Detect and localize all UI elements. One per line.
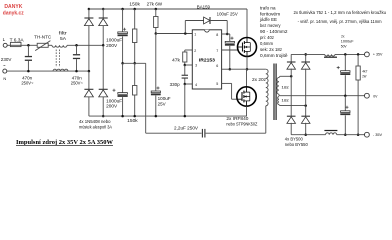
wire +35V rail	[291, 53, 325, 55]
svg-text:danyk.cz: danyk.cz	[3, 11, 24, 17]
svg-text:- 35V: - 35V	[373, 132, 383, 137]
svg-text:0,6mm: 0,6mm	[260, 41, 273, 46]
svg-text:18z: 18z	[281, 86, 289, 90]
svg-text:2x tlumivka 75z 1 - 1,2 mm na: 2x tlumivka 75z 1 - 1,2 mm na feritovém …	[294, 10, 387, 15]
svg-text:100uF 25V: 100uF 25V	[217, 12, 238, 17]
diode D7 out top-right	[305, 54, 307, 62]
node L-cap junction	[27, 44, 30, 47]
wire +310V top rail	[89, 8, 247, 10]
svg-text:7: 7	[216, 49, 218, 53]
transformer core	[273, 64, 275, 121]
capacitor C7 1000uF 50V +	[344, 53, 347, 56]
diode D3 bridge bottom-left	[88, 71, 90, 89]
wire NTC to choke	[48, 44, 52, 46]
svg-text:2W: 2W	[362, 73, 366, 78]
op-amp U1 IR2153	[192, 30, 221, 89]
wire N rail	[7, 70, 89, 72]
capacitor Cx2 470n 250V~	[75, 44, 78, 47]
svg-text:4: 4	[195, 83, 197, 87]
wire pin 8 stub	[222, 33, 230, 35]
svg-text:4x BY500: 4x BY500	[285, 137, 304, 142]
svg-text:200V: 200V	[106, 43, 117, 48]
capacitor Cx1 470n 250V~	[27, 45, 29, 56]
capacitor C1 1000uF 200V upper	[121, 8, 124, 11]
terminal -35V	[365, 132, 370, 137]
svg-text:25V: 25V	[158, 101, 166, 106]
svg-text:~: ~	[3, 64, 6, 69]
wire cap midpoint	[123, 62, 146, 64]
svg-text:pri: 40z: pri: 40z	[260, 35, 274, 40]
wire primary ground rail	[89, 115, 247, 117]
svg-text:2,2uF 250V: 2,2uF 250V	[174, 126, 198, 131]
wire fuse to NTC	[21, 44, 37, 46]
wire pin 5 to lower gate	[222, 82, 232, 84]
terminal +35V	[365, 52, 370, 57]
svg-text:bez mezery: bez mezery	[260, 23, 281, 28]
wire pin 6 VS stub	[222, 68, 230, 70]
transistor Q1 IRF840 upper	[246, 9, 248, 38]
wire VCC to IC pin 1	[156, 33, 193, 35]
diode D4 bridge bottom-right	[102, 45, 104, 89]
svg-text:150k: 150k	[129, 1, 140, 6]
wire pin 7 to upper gate	[222, 49, 238, 51]
svg-text:47k: 47k	[172, 57, 181, 62]
svg-text:0V: 0V	[373, 93, 377, 98]
svg-text:250V~: 250V~	[71, 81, 84, 86]
wire choke to bridge (L)	[67, 44, 103, 46]
diode D9 out bottom-right	[305, 106, 307, 117]
svg-text:sek: 2x 18z: sek: 2x 18z	[260, 47, 282, 52]
svg-text:nebo STP9NK50Z: nebo STP9NK50Z	[226, 122, 257, 127]
svg-text:5: 5	[216, 82, 218, 86]
svg-text:330p: 330p	[170, 82, 181, 87]
svg-text:18z: 18z	[281, 99, 289, 103]
capacitor C8 1000uF 50V -	[344, 96, 346, 111]
svg-text:200V: 200V	[106, 104, 117, 109]
svg-text:5A: 5A	[60, 36, 66, 41]
svg-text:230V: 230V	[1, 57, 13, 62]
svg-text:6: 6	[216, 64, 218, 68]
svg-text:2: 2	[194, 49, 196, 53]
wire L to fuse	[7, 44, 10, 46]
svg-text:DANYK: DANYK	[4, 4, 22, 10]
wire secondary center tap 0V	[279, 95, 365, 97]
svg-text:IR2153: IR2153	[199, 57, 215, 63]
wire -35V rail	[291, 134, 325, 136]
svg-text:N: N	[3, 76, 6, 81]
svg-text:27k 6W: 27k 6W	[147, 1, 163, 6]
svg-text:jádře EE: jádře EE	[259, 17, 277, 22]
svg-text:4x 1N5408 nebo: 4x 1N5408 nebo	[79, 119, 111, 124]
diode D8 out bottom-left	[290, 76, 292, 116]
wire secondary B	[280, 105, 306, 107]
svg-text:90 - 140mm2: 90 - 140mm2	[260, 29, 288, 34]
node VCC pin1	[155, 32, 158, 35]
wire blocking cap to primary	[206, 132, 266, 134]
svg-text:3: 3	[195, 64, 197, 68]
wire midpoint to blocking cap	[145, 63, 147, 133]
svg-text:250V~: 250V~	[21, 81, 34, 86]
capacitor C2 1000uF 200V lower	[122, 63, 124, 92]
svg-text:BA159: BA159	[197, 4, 211, 9]
svg-text:Impulsní zdroj 2x 35V 2x 5A: Impulsní zdroj 2x 35V 2x 5A 350W	[16, 139, 114, 146]
diode D6 out top-left	[290, 54, 292, 62]
inductor L3 output choke -	[326, 133, 337, 135]
wire secondary A	[280, 75, 291, 77]
svg-text:50V: 50V	[341, 44, 347, 49]
svg-text:150k: 150k	[127, 118, 138, 123]
diode D1 bridge top-left	[88, 8, 91, 11]
svg-text:1: 1	[194, 32, 196, 36]
node pin4	[184, 83, 187, 86]
svg-text:feritovém: feritovém	[260, 11, 281, 16]
svg-text:2x IRF840: 2x IRF840	[226, 116, 249, 121]
svg-text:8: 8	[216, 33, 218, 37]
wire half-bridge midpoint	[230, 68, 266, 70]
capacitor C3 100uF 25V vcc	[155, 34, 157, 92]
svg-text:2x 20z: 2x 20z	[252, 77, 266, 82]
svg-text:- vnitř. pr. 14mm, vněj. pr. 2: - vnitř. pr. 14mm, vněj. pr. 27mm, výška…	[298, 19, 382, 24]
svg-text:0,6mm trojitě: 0,6mm trojitě	[260, 53, 288, 58]
svg-text:trafo na: trafo na	[260, 5, 276, 10]
diode D2 bridge top-right	[102, 8, 105, 11]
svg-text:nebo BY550: nebo BY550	[285, 142, 309, 147]
svg-text:+ 35V: + 35V	[373, 51, 383, 56]
svg-text:mùstek alespoň 3A: mùstek alespoň 3A	[79, 125, 112, 130]
terminal 0V	[365, 93, 370, 98]
svg-text:TH-NTC: TH-NTC	[34, 35, 51, 40]
svg-text:T 6,3A: T 6,3A	[10, 38, 24, 43]
node pin3	[184, 64, 187, 67]
inductor L2 output choke +	[325, 54, 335, 56]
